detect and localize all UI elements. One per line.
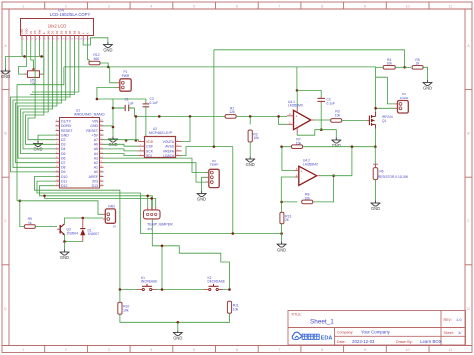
svg-text:10k: 10k (123, 309, 129, 313)
ground (60, 250, 70, 256)
resistor R13 (280, 212, 292, 224)
wire pot right up (43, 56, 45, 74)
capacitor C1 1uF (113, 105, 134, 111)
wire R9 to Q2 base (36, 226, 58, 228)
svg-text:J4: J4 (113, 224, 117, 228)
svg-text:Sheet_1: Sheet_1 (310, 318, 334, 325)
junction (277, 115, 280, 118)
wire R5 to ground (423, 67, 427, 80)
svg-text:10k: 10k (253, 136, 259, 140)
wire nano to U2 (104, 149, 139, 151)
svg-text:GND: GND (1, 74, 10, 79)
svg-text:CS#: CS# (146, 145, 153, 149)
mosfet Q1 IRFZ44 (367, 112, 376, 129)
svg-text:2N3904: 2N3904 (67, 231, 79, 235)
svg-text:1N4007: 1N4007 (88, 232, 100, 236)
wire fan supply (17, 201, 103, 215)
svg-text:D6: D6 (73, 30, 77, 34)
svg-text:SDI: SDI (146, 154, 152, 158)
svg-text:0.1uF: 0.1uF (150, 101, 158, 105)
svg-text:GND: GND (90, 124, 98, 128)
svg-text:7: 7 (279, 4, 281, 8)
wire LCD to nano D7 (16, 41, 62, 163)
svg-text:1: 1 (22, 4, 24, 8)
ground (103, 42, 113, 48)
svg-text:LM358MX: LM358MX (303, 162, 319, 166)
op-amp U4.1 LM358 (287, 106, 315, 133)
svg-text:EDA: EDA (321, 336, 333, 342)
junction (189, 115, 192, 118)
svg-text:3: 3 (108, 4, 110, 8)
potentiometer U5 10k (24, 68, 44, 78)
svg-text:D13: D13 (92, 184, 98, 188)
wire LCD to nano D5 (21, 41, 56, 154)
svg-text:2k: 2k (285, 218, 289, 222)
svg-text:A3: A3 (94, 156, 98, 160)
svg-text:2k: 2k (416, 62, 420, 66)
svg-text:VSS: VSS (20, 29, 24, 35)
transistor Q2 2N3904 (57, 224, 65, 235)
svg-text:RESET: RESET (61, 129, 74, 133)
resistor R10 (118, 302, 130, 314)
junction (23, 55, 26, 58)
button K2 DECREASE (204, 284, 223, 291)
svg-text:GND: GND (103, 48, 112, 53)
svg-text:16x2 LCD: 16x2 LCD (48, 24, 67, 29)
wire nano D11 net (37, 181, 282, 233)
junction (249, 115, 252, 118)
junction (43, 195, 46, 198)
svg-text:2: 2 (65, 348, 67, 352)
ground (197, 191, 207, 197)
svg-text:REV:: REV: (444, 318, 452, 322)
svg-text:D9: D9 (61, 170, 66, 174)
svg-text:LM358MX: LM358MX (288, 104, 304, 108)
wire to R9 (20, 201, 24, 227)
capacitor C2 0.1uF (318, 97, 326, 104)
svg-text:11: 11 (449, 348, 453, 352)
wire feedback to V- (297, 130, 321, 136)
wire bottom rail (120, 313, 230, 322)
wire to jumper pin3 (45, 196, 156, 207)
svg-text:Date:: Date: (337, 340, 346, 344)
junction (112, 107, 115, 110)
resistor R4 (383, 58, 395, 69)
svg-text:Sheet:: Sheet: (444, 331, 454, 335)
svg-text:A7: A7 (94, 138, 98, 142)
svg-text:Company:: Company: (337, 330, 353, 334)
junction (135, 115, 138, 118)
ground (1, 69, 11, 75)
wire to ground (64, 242, 66, 250)
wire output up to sense net (320, 147, 352, 176)
svg-text:Q1: Q1 (382, 119, 386, 123)
junction (232, 232, 235, 235)
svg-text:10k: 10k (304, 196, 310, 200)
ground (108, 137, 118, 143)
svg-text:D3: D3 (61, 143, 66, 147)
wire rail extension (297, 66, 376, 68)
wire jog (138, 140, 140, 142)
wire LOAD pin1 (376, 77, 396, 104)
svg-text:GND: GND (332, 143, 341, 148)
wire nano to U2 (104, 144, 139, 146)
svg-text:9: 9 (364, 4, 366, 8)
svg-text:D1: D1 (51, 30, 55, 34)
wire drain (375, 110, 377, 112)
wire + input from sense (282, 147, 295, 171)
junction (158, 115, 161, 118)
ground (371, 201, 381, 207)
wire to jumper pin2 (151, 198, 153, 207)
wire R13 branch (281, 202, 283, 234)
wire to ground (281, 234, 283, 242)
wire to R2 (249, 116, 251, 124)
svg-text:GND: GND (371, 206, 380, 211)
svg-text:Learn BOX: Learn BOX (420, 339, 442, 344)
svg-text:5: 5 (193, 4, 195, 8)
wire LCD to nano D9 (11, 41, 71, 172)
svg-text:D7: D7 (61, 161, 66, 165)
svg-text:TEMP: TEMP (210, 163, 219, 167)
wire R12 to rail (100, 63, 108, 67)
svg-text:LCD-1602/5LA COPY: LCD-1602/5LA COPY (50, 12, 91, 17)
wire gnd branch (112, 99, 114, 137)
svg-text:+5V: +5V (92, 133, 99, 137)
wire sense net (282, 146, 376, 148)
resistor R7 (292, 138, 303, 149)
svg-text:VIN: VIN (92, 120, 98, 124)
svg-text:AREF: AREF (89, 175, 98, 179)
wire to ground (177, 322, 179, 330)
svg-text:12k: 12k (229, 110, 235, 114)
svg-text:D6: D6 (61, 156, 66, 160)
svg-text:GND: GND (173, 336, 182, 341)
wire VSS/GND rail (6, 55, 44, 57)
ground (245, 157, 255, 163)
junction (161, 288, 164, 291)
wire LCD K to R12 (88, 41, 89, 64)
junction (280, 145, 283, 148)
wire LCD D6 (30, 41, 74, 95)
wire dac output net (134, 115, 287, 117)
svg-text:VREFA: VREFA (163, 149, 175, 153)
wire LCD A to ground (83, 38, 108, 45)
svg-text:10k: 10k (335, 113, 341, 117)
svg-text:D5: D5 (68, 30, 72, 34)
junction (280, 232, 283, 235)
resistor R2 (248, 130, 259, 142)
wire op-amp out (315, 119, 331, 121)
svg-text:560: 560 (94, 57, 100, 61)
svg-text:GND: GND (197, 197, 206, 202)
svg-text:3: 3 (108, 348, 110, 352)
svg-text:RESISTOR-0.1Ω-5W: RESISTOR-0.1Ω-5W (378, 175, 408, 179)
svg-text:GND: GND (246, 162, 255, 167)
wire K1 to K2 (157, 289, 205, 291)
wire to ground (321, 130, 336, 138)
wire LDAC net (182, 147, 233, 156)
ground (277, 242, 287, 248)
svg-text:D0: D0 (46, 30, 50, 34)
wire nano to U2 (104, 154, 139, 156)
wire LCD VSS down (21, 41, 23, 57)
svg-text:LOAD: LOAD (400, 96, 409, 100)
svg-text:INCREASE: INCREASE (141, 280, 157, 284)
connector P3 LOAD (395, 92, 409, 113)
mcu U1 ARDUINO_NANO (56, 118, 104, 189)
svg-text:V0: V0 (29, 30, 33, 34)
wire C1 to vref net (133, 108, 135, 116)
svg-text:D0/RX: D0/RX (61, 124, 72, 128)
svg-text:D5: D5 (61, 152, 66, 156)
wire nano GND left (38, 135, 56, 141)
svg-text:10k: 10k (233, 308, 239, 312)
resistor R3 (331, 110, 342, 123)
op-amp U4.2 LM358 (295, 166, 321, 185)
junction (374, 145, 377, 148)
svg-text:5: 5 (193, 348, 195, 352)
wire to K1 bar (161, 246, 163, 290)
wire to R6 (374, 147, 376, 167)
junction (96, 98, 99, 101)
wire Q2 collector to fan (65, 218, 104, 224)
resistor R1 (225, 106, 236, 118)
svg-text:JP1: JP1 (147, 227, 152, 231)
svg-text:D4: D4 (64, 30, 68, 34)
svg-text:VOUTA: VOUTA (163, 140, 175, 144)
junction (280, 201, 283, 204)
svg-text:A1: A1 (94, 166, 98, 170)
wire TEMP pin2 to ground (202, 177, 207, 191)
svg-text:A0: A0 (94, 170, 98, 174)
wire rail to R4 (376, 66, 384, 68)
junction (107, 66, 110, 69)
wire drain supply (375, 67, 377, 110)
wire to jumper pin1 (147, 196, 149, 207)
connector P2 TEMP (207, 159, 220, 188)
junction (135, 139, 138, 142)
wire to inverting input (279, 116, 287, 124)
junction (296, 89, 299, 92)
svg-text:RW: RW (38, 29, 42, 34)
wire R3 to Q1 gate (342, 119, 367, 121)
svg-text:10k: 10k (386, 62, 392, 66)
svg-text:6: 6 (236, 348, 238, 352)
svg-text:RS: RS (33, 30, 37, 34)
dac U2 MCP4821-E/P (139, 137, 182, 159)
svg-text:D2: D2 (55, 30, 59, 34)
svg-text:FAN: FAN (108, 204, 115, 208)
resistor R12 (89, 53, 100, 65)
resistor R9 (24, 217, 35, 228)
svg-text:Drawn By:: Drawn By: (396, 340, 413, 344)
svg-text:D12: D12 (61, 184, 67, 188)
wire C2 down (320, 103, 322, 129)
wire source down (375, 129, 377, 147)
svg-text:1uF: 1uF (128, 101, 134, 105)
svg-text:A: A (81, 32, 85, 34)
title block (288, 311, 466, 346)
connector J4 FAN (103, 204, 116, 223)
wire LCD to nano D3 (26, 41, 56, 145)
svg-text:8: 8 (321, 4, 323, 8)
svg-text:10: 10 (406, 4, 410, 8)
svg-text:TITLE:: TITLE: (291, 312, 302, 316)
svg-text:R6: R6 (380, 169, 384, 173)
svg-text:2: 2 (65, 4, 67, 8)
wire VOUTA up to net (182, 116, 191, 141)
wire K2 right (223, 289, 230, 291)
wire LCD to nano D2 (28, 41, 56, 140)
resistor R8 (302, 193, 313, 204)
svg-text:10k: 10k (296, 141, 302, 145)
wire long vertical to buttons (232, 147, 234, 234)
wire nano A3 to TEMP pin1 (104, 158, 207, 172)
junction (63, 240, 66, 243)
svg-text:A4: A4 (94, 152, 98, 156)
svg-text:1k: 1k (28, 221, 32, 225)
ground (423, 80, 433, 86)
wire R10 to K1 (120, 289, 138, 291)
wire nano A2 to TEMP pin3 (104, 163, 207, 182)
svg-text:D4: D4 (61, 147, 66, 151)
ground (173, 331, 183, 336)
svg-text:E: E (42, 32, 46, 34)
wire LCD to nano D8 (13, 41, 66, 168)
junction (150, 197, 153, 200)
wire Q2 emitter (65, 235, 83, 242)
svg-text:MCP4821-E/P: MCP4821-E/P (149, 131, 173, 135)
wire R6 to ground (375, 180, 377, 201)
resistor R5 (412, 58, 423, 69)
svg-text:1.0: 1.0 (456, 317, 462, 322)
svg-text:ARDUINO_NANO: ARDUINO_NANO (74, 113, 105, 117)
wire - input feedback (281, 177, 297, 202)
svg-text:9: 9 (364, 348, 366, 352)
wire LCD to nano D4 (23, 41, 56, 149)
svg-text:DECREASE: DECREASE (208, 280, 226, 284)
junction (332, 174, 335, 177)
wire LCD D7 (32, 41, 79, 93)
wire branch (135, 116, 137, 140)
junction (177, 321, 180, 324)
svg-text:7: 7 (279, 348, 281, 352)
resistor R6 RESISTOR-0.1R-5W (373, 164, 378, 179)
wire nano D10 to R10 K1 (35, 177, 120, 290)
svg-text:10: 10 (406, 348, 410, 352)
svg-text:GND: GND (277, 247, 286, 252)
button K1 INCREASE (138, 284, 157, 291)
connector P1 PWR (118, 70, 132, 91)
svg-text:2022-12-03: 2022-12-03 (352, 339, 375, 344)
ground (331, 138, 341, 144)
junction (213, 145, 216, 148)
junction (112, 126, 115, 129)
capacitor C3 0.1uF (143, 99, 150, 141)
svg-text:3V3: 3V3 (92, 179, 98, 183)
svg-text:A6: A6 (94, 143, 98, 147)
wire R4R5 junction up (404, 50, 406, 68)
svg-text:0.1uF: 0.1uF (327, 101, 335, 105)
wire nano GND right (104, 125, 114, 127)
wire supply rail (64, 66, 297, 68)
junction (125, 139, 128, 142)
svg-text:D2: D2 (61, 138, 66, 142)
svg-text:RESET: RESET (86, 129, 99, 133)
junction (403, 66, 406, 69)
junction (146, 195, 149, 198)
diode D1 1N4007 (80, 218, 85, 242)
svg-text:GND: GND (423, 86, 432, 91)
junction (19, 200, 22, 203)
wire LOAD pin2 (376, 107, 396, 109)
svg-text:GND: GND (61, 133, 69, 137)
junction (351, 145, 354, 148)
lcd module U4 16x2 LCD (20, 19, 93, 41)
svg-text:VDD: VDD (24, 28, 28, 34)
wire op-amp V+ to rail (296, 90, 298, 106)
wire R2 to ground (249, 142, 251, 157)
wire (119, 290, 121, 303)
logo JLC EDA (292, 332, 301, 339)
wire nano D12 net to K2 (40, 186, 230, 290)
wire feedback to output (313, 176, 334, 202)
wire LCD VDD to pot (19, 41, 27, 75)
wire to capacitor C2 (297, 90, 321, 96)
svg-text:D8: D8 (61, 166, 66, 170)
svg-text:SCK: SCK (146, 149, 154, 153)
svg-text:6: 6 (236, 4, 238, 8)
svg-text:+: + (295, 115, 297, 119)
wire LCD to nano D6 (18, 41, 57, 159)
junction (40, 55, 43, 58)
svg-text:1: 1 (22, 348, 24, 352)
svg-text:VDD: VDD (146, 140, 154, 144)
jumper JP1 TEMP JUMPER (144, 207, 161, 219)
svg-text:D7: D7 (77, 30, 81, 34)
wire nano to U2 VDD (104, 139, 139, 141)
wire LCD RW down (38, 41, 40, 57)
svg-text:D1/TX: D1/TX (61, 120, 72, 124)
wire top rail to R4 R5 (214, 49, 405, 51)
svg-text:8: 8 (321, 348, 323, 352)
svg-text:GND: GND (60, 255, 69, 260)
svg-text:4: 4 (150, 4, 152, 8)
svg-text:K: K (86, 32, 90, 34)
junction (374, 107, 377, 110)
svg-text:LDAC#: LDAC# (163, 154, 174, 158)
resistor R11 (227, 301, 238, 313)
svg-text:D11: D11 (61, 179, 67, 183)
svg-text:A5: A5 (94, 147, 98, 151)
wire rail west tail (17, 67, 64, 201)
ground (33, 141, 43, 147)
wire rail down to op-amp (296, 67, 298, 91)
svg-text:Your Company: Your Company (361, 330, 391, 335)
junction (320, 128, 323, 131)
wire vertical 5V to temp net (213, 50, 215, 147)
wire PWR pin1 to rail (110, 67, 118, 83)
svg-text:AVSS: AVSS (165, 145, 175, 149)
junction (161, 245, 164, 248)
junction (145, 140, 148, 143)
svg-text:TEMP JUMPER: TEMP JUMPER (147, 223, 173, 227)
svg-text:11: 11 (449, 4, 453, 8)
junction (119, 288, 122, 291)
svg-text:A2: A2 (94, 161, 98, 165)
svg-text:PWR: PWR (122, 74, 130, 78)
